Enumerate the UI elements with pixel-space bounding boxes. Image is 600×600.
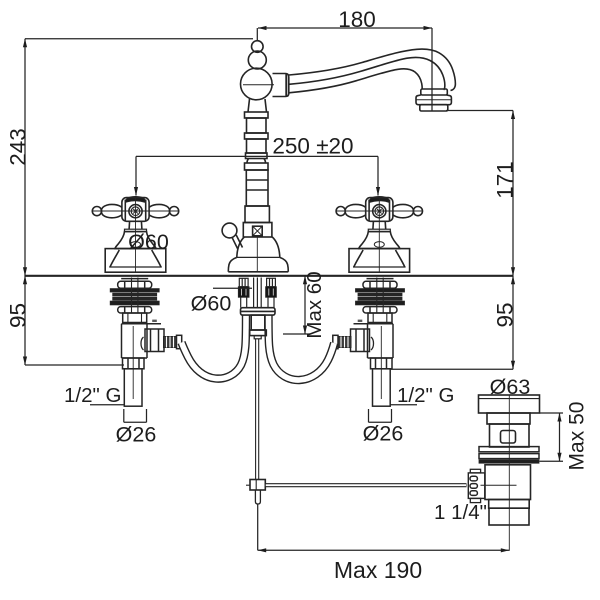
dim 95 right vertical bbox=[512, 276, 514, 370]
leader 1/2G right bbox=[391, 404, 418, 406]
dim 171 pointer from nozzle bbox=[446, 110, 513, 112]
dim 243 horizontal bbox=[25, 38, 253, 40]
dim 250 line bbox=[136, 155, 378, 157]
svg-text:Ø63: Ø63 bbox=[490, 375, 531, 399]
side lever stem bbox=[232, 235, 243, 250]
leader Ø60 centre bbox=[213, 287, 252, 289]
svg-text:Max 60: Max 60 bbox=[303, 271, 326, 338]
drain body lower band bbox=[489, 500, 530, 509]
bead ring bbox=[246, 153, 268, 159]
wider column section bbox=[245, 206, 269, 223]
valve block bbox=[243, 223, 272, 238]
dim Max50 bbox=[540, 412, 564, 414]
svg-text:250 ±20: 250 ±20 bbox=[272, 134, 353, 159]
left stud thread bbox=[239, 278, 248, 286]
column neck bbox=[248, 99, 267, 112]
ext line spout top bbox=[256, 28, 258, 41]
svg-text:95: 95 bbox=[5, 303, 30, 328]
finial small ball bbox=[251, 41, 263, 53]
drain body with window bbox=[490, 424, 530, 447]
dim 171 vertical bbox=[512, 111, 514, 276]
column section with divisions bbox=[246, 170, 268, 206]
collar bbox=[273, 74, 289, 97]
spout middle curve bbox=[289, 57, 445, 89]
leader 1/2G left bbox=[90, 404, 125, 406]
svg-text:243: 243 bbox=[5, 128, 30, 166]
side lever ball bbox=[222, 223, 237, 238]
svg-text:95: 95 bbox=[493, 302, 518, 327]
horizontal rod bbox=[265, 483, 466, 487]
spout base skirt bbox=[228, 257, 288, 271]
drain main body bbox=[485, 465, 531, 500]
svg-text:180: 180 bbox=[338, 7, 376, 32]
dim 95 left pointer bbox=[25, 364, 124, 366]
left hose bbox=[182, 316, 247, 379]
drain rings bbox=[479, 447, 539, 452]
drain tailpiece bbox=[489, 508, 529, 525]
drain riser bbox=[487, 413, 530, 424]
pop-up knob symbol bbox=[253, 226, 263, 236]
big ball bbox=[240, 68, 272, 100]
rod clamp bbox=[250, 480, 265, 491]
rod pin bbox=[255, 490, 260, 504]
svg-text:Ø60: Ø60 bbox=[128, 230, 169, 254]
svg-text:Max 50: Max 50 bbox=[566, 402, 589, 471]
centre tube lines bbox=[253, 278, 255, 308]
nozzle flare ring bbox=[416, 95, 451, 105]
svg-text:1/2" G: 1/2" G bbox=[397, 384, 454, 407]
centre shank nut bbox=[250, 330, 267, 336]
dim 180 line bbox=[258, 27, 432, 29]
drain axis bbox=[508, 395, 510, 551]
svg-text:1 1/4": 1 1/4" bbox=[434, 501, 487, 524]
svg-text:Ø60: Ø60 bbox=[191, 292, 232, 316]
centre shank bbox=[251, 315, 265, 330]
ext line nozzle centre bbox=[431, 28, 433, 111]
svg-text:Ø26: Ø26 bbox=[363, 422, 404, 446]
stud rods bbox=[240, 297, 242, 307]
spout inner bottom curve bbox=[289, 69, 422, 93]
pop-up rod vertical bbox=[255, 339, 257, 480]
dim Max190 bbox=[257, 504, 259, 550]
spout base bell dome bbox=[237, 237, 280, 257]
dim 243/95 vertical bbox=[24, 39, 26, 365]
mounting plate bbox=[241, 308, 276, 315]
ring bbox=[245, 112, 269, 118]
svg-text:Ø26: Ø26 bbox=[116, 423, 157, 447]
ring bbox=[245, 133, 269, 139]
column section bbox=[247, 139, 267, 153]
right hose bbox=[269, 316, 335, 381]
nozzle top ring bbox=[421, 89, 448, 95]
right stud nut bbox=[266, 287, 277, 298]
column section bbox=[247, 118, 267, 133]
right stud thread bbox=[267, 278, 276, 286]
finial middle ball bbox=[248, 51, 266, 69]
dim Ø26 right bbox=[368, 409, 370, 422]
drain flange bbox=[479, 395, 540, 413]
svg-text:Max 190: Max 190 bbox=[334, 557, 422, 583]
dim Max60 vertical bbox=[304, 276, 306, 334]
spout outer top curve bbox=[289, 49, 456, 90]
knurled knob bbox=[468, 473, 485, 499]
dim 95 right pointer bbox=[391, 368, 513, 370]
left stud nut bbox=[238, 287, 249, 298]
svg-text:1/2" G: 1/2" G bbox=[64, 384, 121, 407]
nozzle bottom ring bbox=[420, 105, 448, 111]
dim Ø26 left bbox=[123, 409, 125, 422]
svg-text:171: 171 bbox=[493, 161, 518, 199]
